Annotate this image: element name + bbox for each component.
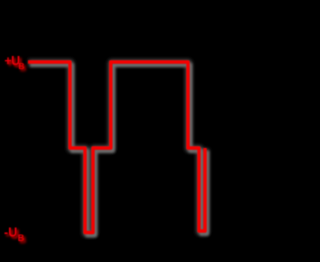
wire halo (29, 63, 206, 234)
wire waveform square wave with spikes (28, 62, 205, 233)
wire shadow (30, 65, 207, 236)
